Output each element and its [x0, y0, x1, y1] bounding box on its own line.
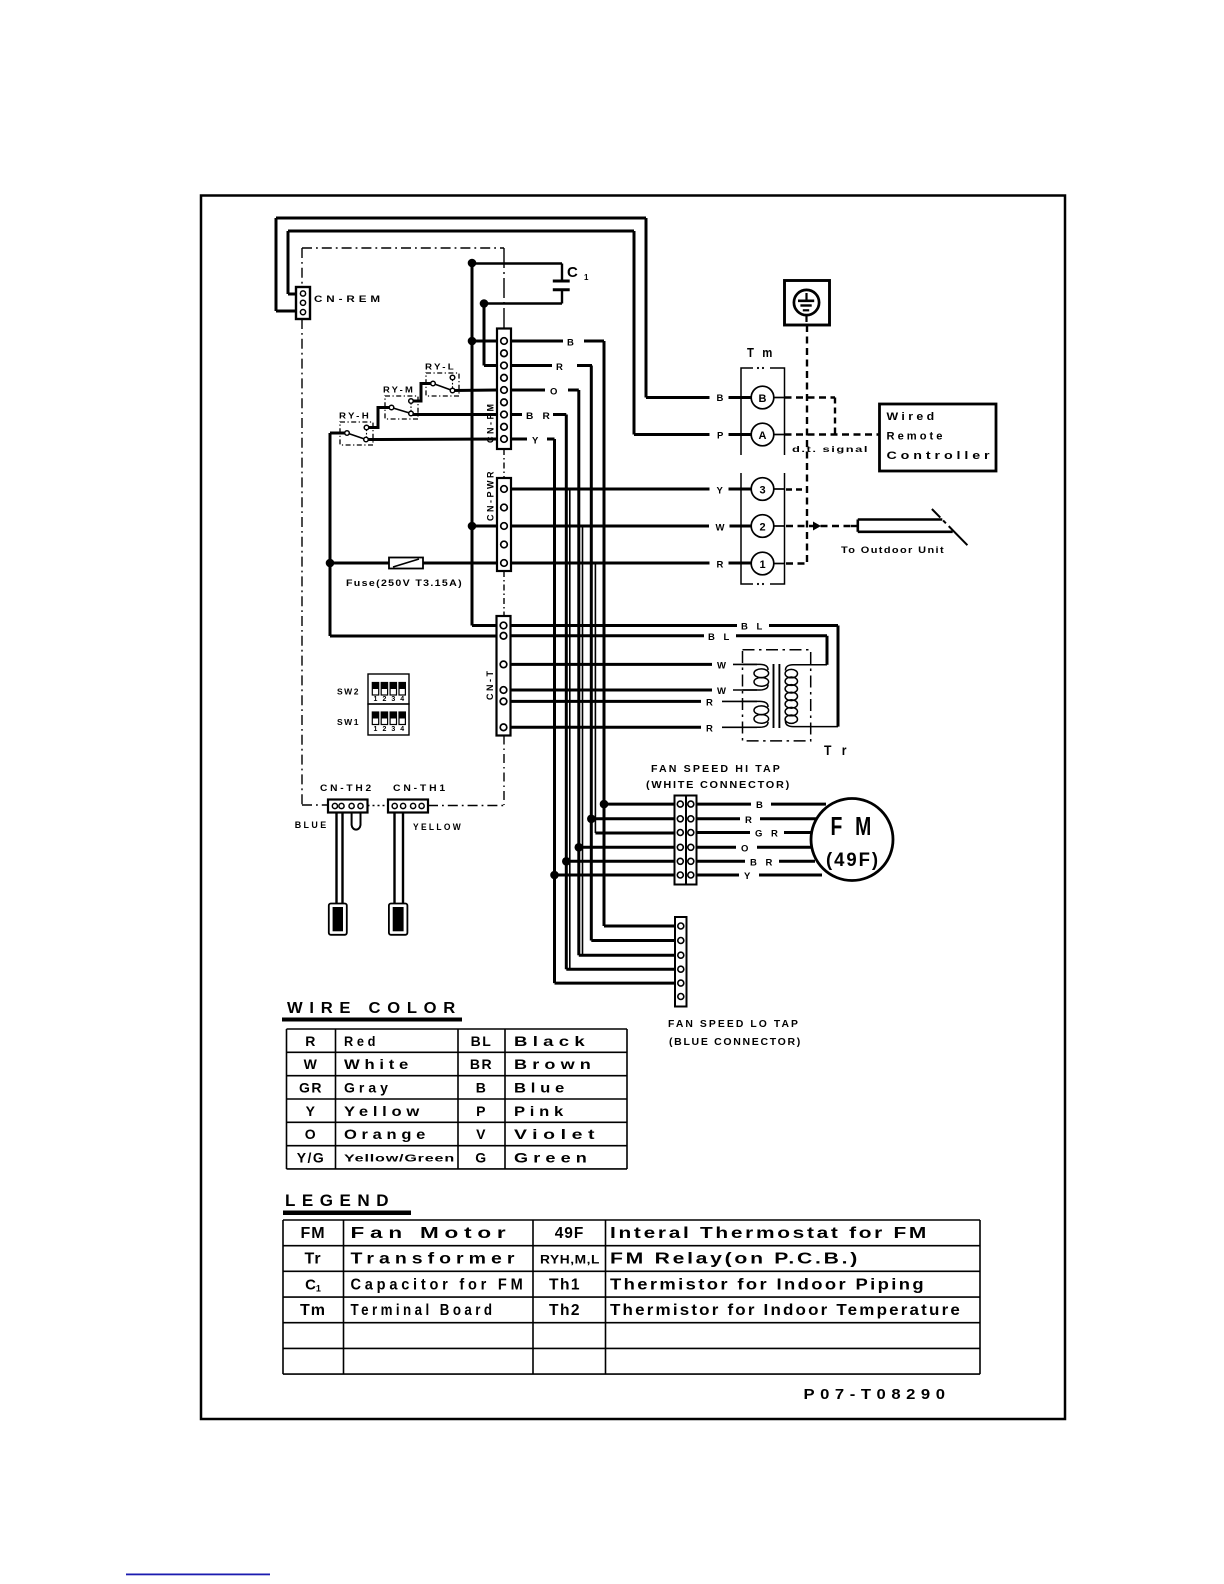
svg-text:CN-TH2: CN-TH2	[320, 783, 374, 794]
svg-text:B: B	[759, 393, 767, 405]
svg-text:Th1: Th1	[549, 1276, 581, 1293]
svg-text:B: B	[756, 800, 763, 811]
svg-text:RY-L: RY-L	[425, 362, 456, 372]
svg-text:BR: BR	[470, 1056, 493, 1072]
svg-text:CN-REM: CN-REM	[314, 294, 384, 305]
svg-text:BL: BL	[471, 1033, 493, 1049]
svg-text:Interal Thermostat for FM: Interal Thermostat for FM	[610, 1225, 929, 1242]
svg-text:WIRE COLOR: WIRE COLOR	[287, 1000, 462, 1017]
svg-text:CN-PWR: CN-PWR	[486, 469, 496, 521]
svg-text:B: B	[476, 1079, 488, 1095]
svg-text:Remote: Remote	[887, 431, 946, 443]
svg-text:CN-TH1: CN-TH1	[393, 783, 448, 794]
svg-text:Controller: Controller	[887, 450, 994, 462]
svg-text:Y/G: Y/G	[297, 1149, 326, 1165]
svg-text:P07-T08290: P07-T08290	[804, 1386, 951, 1403]
svg-text:d.t. signal: d.t. signal	[792, 444, 869, 454]
svg-text:R: R	[706, 724, 713, 735]
svg-text:Y: Y	[532, 436, 539, 447]
svg-text:P: P	[717, 431, 724, 442]
svg-text:Y: Y	[306, 1103, 317, 1119]
svg-text:O: O	[305, 1126, 317, 1142]
svg-text:Transformer: Transformer	[351, 1251, 520, 1268]
svg-text:B: B	[717, 393, 724, 404]
svg-text:3: 3	[391, 726, 395, 733]
svg-text:O: O	[741, 844, 748, 855]
svg-text:B R: B R	[750, 858, 775, 869]
svg-text:2: 2	[382, 726, 386, 733]
svg-text:B L: B L	[708, 632, 732, 643]
svg-text:Y: Y	[744, 871, 751, 882]
svg-text:Tr: Tr	[304, 1251, 321, 1268]
svg-text:To Outdoor Unit: To Outdoor Unit	[841, 545, 945, 556]
svg-text:A: A	[759, 430, 767, 442]
svg-text:FAN SPEED LO TAP: FAN SPEED LO TAP	[668, 1019, 800, 1030]
svg-text:Green: Green	[514, 1149, 592, 1165]
svg-text:GR: GR	[299, 1079, 323, 1095]
svg-text:G R: G R	[755, 829, 781, 840]
svg-text:Yellow/Green: Yellow/Green	[344, 1153, 455, 1164]
svg-text:Violet: Violet	[514, 1126, 600, 1142]
svg-text:Black: Black	[514, 1033, 590, 1049]
svg-text:FAN SPEED HI TAP: FAN SPEED HI TAP	[651, 764, 782, 775]
svg-text:(WHITE CONNECTOR): (WHITE CONNECTOR)	[646, 780, 791, 791]
svg-text:B L: B L	[741, 622, 765, 633]
svg-text:CN-T: CN-T	[485, 669, 495, 701]
svg-text:FM: FM	[300, 1225, 325, 1242]
svg-text:C: C	[567, 264, 578, 281]
svg-text:LEGEND: LEGEND	[285, 1191, 395, 1210]
svg-text:3: 3	[759, 485, 765, 497]
svg-text:Fan Motor: Fan Motor	[351, 1225, 512, 1242]
svg-text:Pink: Pink	[514, 1103, 568, 1119]
svg-text:(49F): (49F)	[826, 850, 880, 871]
svg-text:Yellow: Yellow	[344, 1103, 424, 1119]
svg-text:Th2: Th2	[549, 1302, 581, 1319]
svg-text:1: 1	[584, 273, 589, 282]
svg-text:SW2: SW2	[337, 687, 360, 697]
svg-text:P: P	[476, 1103, 487, 1119]
svg-text:B: B	[567, 338, 574, 349]
svg-text:(BLUE CONNECTOR): (BLUE CONNECTOR)	[669, 1037, 802, 1048]
svg-text:Fuse(250V T3.15A): Fuse(250V T3.15A)	[346, 578, 463, 589]
svg-text:Y: Y	[717, 486, 724, 497]
svg-text:T r: T r	[824, 742, 850, 758]
svg-text:Blue: Blue	[514, 1079, 569, 1095]
svg-text:RY-M: RY-M	[383, 385, 415, 395]
svg-text:Red: Red	[344, 1033, 379, 1049]
svg-text:T m: T m	[747, 345, 775, 360]
svg-text:CN-FM: CN-FM	[486, 402, 496, 444]
svg-text:Thermistor for Indoor Piping: Thermistor for Indoor Piping	[610, 1276, 926, 1293]
svg-text:3: 3	[391, 696, 395, 703]
svg-text:White: White	[344, 1056, 413, 1072]
svg-text:2: 2	[759, 522, 765, 534]
svg-text:G: G	[475, 1149, 487, 1165]
svg-text:Capacitor for FM: Capacitor for FM	[351, 1276, 527, 1293]
svg-text:Thermistor for Indoor Temperat: Thermistor for Indoor Temperature	[610, 1302, 962, 1319]
svg-text:B R: B R	[526, 411, 553, 422]
svg-text:SW1: SW1	[337, 717, 360, 727]
svg-text:R: R	[745, 815, 752, 826]
svg-text:YELLOW: YELLOW	[413, 822, 463, 833]
svg-text:W: W	[716, 523, 725, 534]
svg-text:W: W	[717, 686, 726, 697]
svg-text:BLUE: BLUE	[295, 820, 329, 831]
svg-text:R: R	[556, 362, 563, 373]
svg-text:49F: 49F	[555, 1225, 585, 1242]
svg-text:W: W	[717, 661, 726, 672]
svg-text:RYH,M,L: RYH,M,L	[540, 1253, 600, 1267]
svg-text:Tm: Tm	[300, 1302, 326, 1319]
svg-text:Terminal Board: Terminal Board	[351, 1302, 496, 1319]
svg-text:RY-H: RY-H	[339, 411, 371, 421]
svg-text:4: 4	[400, 726, 404, 733]
svg-text:1: 1	[759, 559, 765, 571]
svg-text:R: R	[305, 1033, 317, 1049]
svg-text:1: 1	[374, 696, 378, 703]
svg-text:1: 1	[374, 726, 378, 733]
svg-text:F M: F M	[831, 811, 876, 841]
svg-text:Brown: Brown	[514, 1056, 596, 1072]
svg-text:V: V	[476, 1126, 487, 1142]
svg-text:2: 2	[382, 696, 386, 703]
svg-text:Wired: Wired	[887, 411, 938, 423]
svg-text:FM Relay(on P.C.B.): FM Relay(on P.C.B.)	[610, 1251, 860, 1268]
svg-text:W: W	[304, 1056, 319, 1072]
svg-text:Gray: Gray	[344, 1079, 392, 1095]
svg-text:O: O	[550, 387, 557, 398]
svg-text:R: R	[717, 560, 724, 571]
svg-text:Orange: Orange	[344, 1126, 430, 1142]
svg-text:R: R	[706, 698, 713, 709]
svg-text:4: 4	[400, 696, 404, 703]
